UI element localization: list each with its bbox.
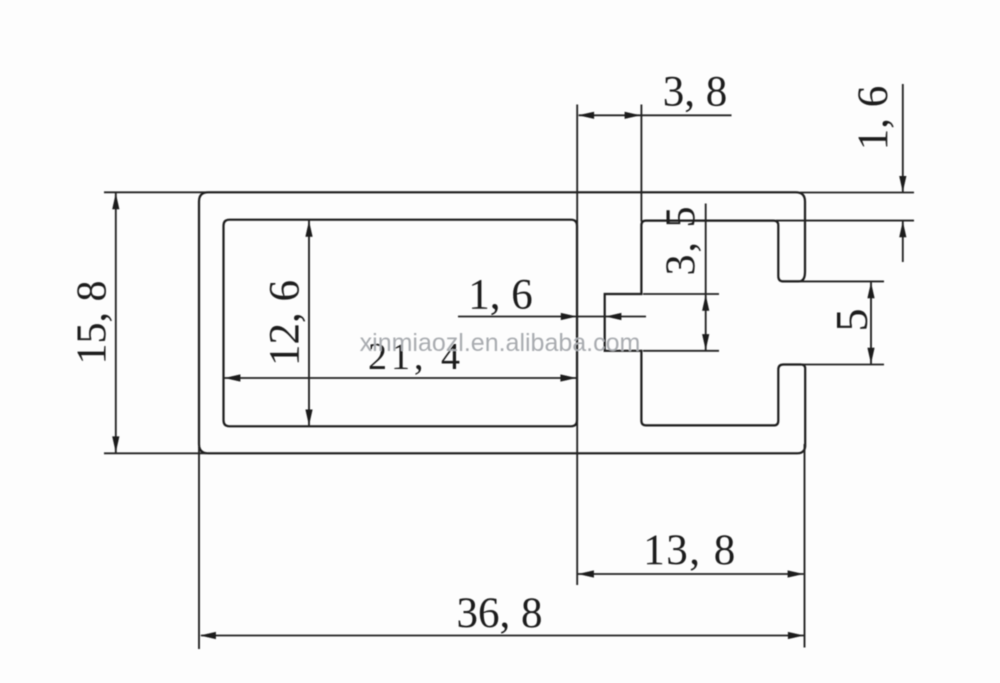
ext line notch top xyxy=(643,293,719,295)
arrow 15,8 up xyxy=(112,193,119,209)
dim line 3,8 xyxy=(579,114,732,116)
svg-text:3, 8: 3, 8 xyxy=(663,69,728,116)
arrow 13,8 left xyxy=(578,570,594,577)
ext line 5 top xyxy=(800,280,884,282)
arrow 21,4 right xyxy=(560,374,576,381)
arrow 1,6 mid pointing left xyxy=(605,313,621,320)
dim line 15,8 xyxy=(115,193,117,453)
arrow 3,8 right xyxy=(625,112,641,119)
arrow 3,5 down xyxy=(702,334,709,350)
svg-text:1, 6: 1, 6 xyxy=(850,86,897,151)
svg-text:15, 8: 15, 8 xyxy=(70,281,116,365)
svg-text:12, 6: 12, 6 xyxy=(262,280,309,366)
arrow 15,8 down xyxy=(112,436,119,452)
ext line notch bottom xyxy=(643,350,719,352)
arrow 36,8 left xyxy=(200,632,216,639)
svg-text:1, 6: 1, 6 xyxy=(468,272,533,319)
dim line 3,5 vertical xyxy=(705,204,707,351)
ext line x804 bottom xyxy=(804,444,806,648)
profile outer outline xyxy=(199,192,805,453)
ext line x640 xyxy=(640,105,642,222)
dim line 1,6 right lower xyxy=(902,221,904,262)
arrow 5 up xyxy=(867,282,874,298)
ext line x200 bottom xyxy=(198,446,200,649)
arrow 12,6 down xyxy=(305,410,312,426)
arrow 12,6 up xyxy=(305,221,312,237)
arrow 5 down xyxy=(867,348,874,364)
arrow 1,6 right up xyxy=(899,221,906,237)
dim line 13,8 xyxy=(577,573,804,575)
ext line 1,6 right bottom xyxy=(776,220,914,222)
svg-text:5: 5 xyxy=(826,309,877,332)
arrow 36,8 right xyxy=(788,632,804,639)
arrow 21,4 left xyxy=(224,374,240,381)
arrow 3,8 left xyxy=(578,112,594,119)
svg-text:36, 8: 36, 8 xyxy=(457,590,543,637)
svg-text:3, 5: 3, 5 xyxy=(659,205,705,276)
dim line 5 xyxy=(870,282,872,364)
svg-text:13, 8: 13, 8 xyxy=(643,527,737,574)
dim line 21,4 xyxy=(223,377,577,379)
ext line 15,8 bottom xyxy=(104,452,206,454)
dim line 36,8 xyxy=(201,635,804,637)
dim line 1,6 right upper xyxy=(902,84,904,193)
ext line 15,8 top xyxy=(104,191,206,193)
ext line 1,6 right top xyxy=(800,192,914,194)
dim line 12,6 xyxy=(308,220,310,426)
svg-text:xinmiaozl.en.alibaba.com: xinmiaozl.en.alibaba.com xyxy=(360,329,641,357)
inner hollow cavity (left tube) xyxy=(224,220,578,427)
arrow 3,5 up xyxy=(702,295,709,311)
arrow 1,6 mid pointing right xyxy=(561,313,577,320)
dim line 1,6 middle xyxy=(458,316,646,318)
ext line x578 xyxy=(576,105,578,586)
arrow 1,6 right down xyxy=(899,176,906,192)
ext line 5 bottom xyxy=(801,364,884,366)
arrow 13,8 right xyxy=(788,570,804,577)
